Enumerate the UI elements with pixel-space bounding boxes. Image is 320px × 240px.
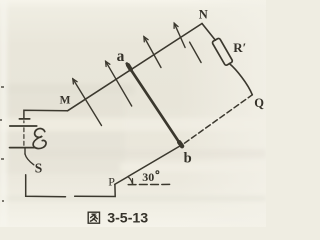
rod contact blob b	[179, 142, 182, 146]
svg-text:R′: R′	[233, 40, 246, 55]
bottom wire right part to P	[75, 185, 116, 197]
degree mark of 30	[156, 171, 159, 174]
battery dash	[23, 121, 25, 123]
svg-text:S: S	[35, 160, 43, 175]
svg-text:N: N	[199, 8, 208, 22]
svg-text:P: P	[108, 174, 115, 188]
paper streak shading	[0, 0, 266, 227]
resistor R' body	[212, 38, 233, 66]
angle arc at P	[128, 177, 132, 184]
svg-text:M: M	[60, 94, 71, 106]
field arrow 2 shaft	[106, 61, 132, 106]
field arrow 3 head	[144, 37, 148, 42]
wire switch to bottom corner	[26, 175, 66, 197]
field arrow 2 head	[106, 61, 110, 66]
battery long plate 1	[10, 125, 37, 127]
dashed horizontal reference line	[128, 183, 172, 185]
battery dashed link	[23, 128, 25, 147]
wire N to resistor	[202, 24, 215, 41]
svg-text:30: 30	[142, 170, 154, 184]
field arrow 4 head	[174, 23, 178, 28]
EMF script-E symbol	[33, 129, 46, 149]
rail P to b (solid)	[115, 145, 181, 184]
svg-text:Q: Q	[254, 96, 264, 110]
field arrow 5 shaft near N	[190, 42, 202, 62]
wire resistor to Q	[229, 64, 252, 95]
rail b to Q (dashed)	[185, 95, 253, 143]
svg-text:3-5-13: 3-5-13	[107, 211, 148, 227]
field arrow 4 shaft	[174, 23, 185, 47]
rod ab (thick)	[127, 64, 181, 146]
field arrow 1 shaft	[73, 79, 102, 126]
rail MN	[68, 24, 203, 111]
switch S blade	[25, 154, 34, 165]
field arrow 3 shaft	[144, 37, 161, 68]
angle tick	[132, 179, 134, 185]
field arrow 1 head	[73, 79, 77, 84]
switch stub from battery	[24, 148, 26, 154]
svg-text:b: b	[184, 151, 192, 167]
battery top short plate	[19, 118, 29, 120]
caption hanzi "tu" glyph	[88, 212, 99, 223]
battery long plate 2	[10, 147, 36, 149]
wire M to battery top	[24, 110, 68, 118]
svg-text:a: a	[117, 48, 125, 65]
left edge scan specks	[0, 86, 4, 202]
rod contact blob a	[128, 65, 131, 70]
